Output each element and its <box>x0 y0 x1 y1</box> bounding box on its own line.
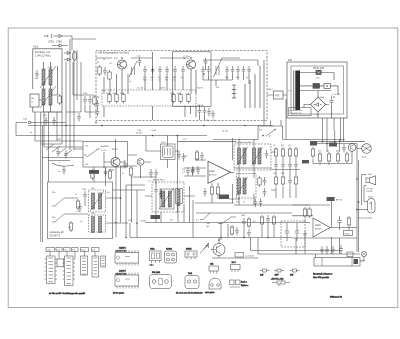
svg-text:47k: 47k <box>104 173 107 175</box>
label box Netztrafo <box>289 108 312 116</box>
wire c20 <box>200 105 205 120</box>
switch arrow S5 <box>55 198 64 206</box>
bus main 2 <box>16 135 207 137</box>
trimmer arrow 2 <box>40 86 56 108</box>
wire link verticals <box>66 50 81 112</box>
resistor R93 <box>272 215 275 226</box>
capacitor C93 <box>266 215 270 224</box>
capacitor C19a <box>247 66 251 75</box>
pad pair D3 <box>290 269 300 272</box>
svg-text:Nn oben und die Bestückseite: Nn oben und die Bestückseite <box>176 292 203 295</box>
coil U1b <box>99 193 102 209</box>
svg-text:C28: C28 <box>57 139 60 141</box>
capacitor C28a <box>44 117 48 126</box>
capacitor C22b <box>207 108 211 117</box>
capacitor C90 <box>235 227 239 236</box>
coil L6 <box>42 89 45 105</box>
pad pair D1 <box>260 269 270 272</box>
resistor R5a <box>122 93 125 104</box>
coil F3a <box>238 178 241 194</box>
capacitor C4b <box>83 96 87 105</box>
coil F1b <box>243 148 246 164</box>
capacitor C12a <box>201 66 205 75</box>
antenna jack 2 <box>52 44 63 47</box>
IC footprint DIP2 <box>65 256 74 286</box>
capacitor C18a <box>242 66 246 75</box>
resistor R65 <box>294 147 297 158</box>
rail top <box>310 142 365 144</box>
rail to bridge <box>300 91 331 98</box>
resistor R2 <box>58 94 61 105</box>
svg-text:Nnn IFB gezahlt: Nnn IFB gezahlt <box>313 276 329 279</box>
transistor T3 <box>111 157 120 166</box>
capacitor C21b <box>203 107 207 116</box>
svg-text:Laufwerke gilt: Laufwerke gilt <box>50 231 65 234</box>
labels <box>273 145 292 175</box>
IC footprint A225 <box>115 253 139 264</box>
svg-text:47n: 47n <box>236 202 239 204</box>
svg-text:120: 120 <box>206 120 209 122</box>
junction dots rails <box>322 141 358 180</box>
capacitor C11a <box>96 100 100 109</box>
svg-text:C50: C50 <box>57 249 60 251</box>
capacitor C50 <box>200 152 204 161</box>
wire u2 <box>292 197 338 254</box>
resistor R32 <box>108 169 111 180</box>
svg-text:C28: C28 <box>43 115 46 117</box>
resistor R30 <box>91 169 94 180</box>
transformer dashed box 1 <box>89 190 106 212</box>
svg-text:C55: C55 <box>92 249 95 251</box>
svg-text:Emitter e: Emitter e <box>241 284 248 287</box>
label box BF245 <box>310 141 317 146</box>
bus under cols <box>195 199 310 213</box>
svg-text:7 Tr: 7 Tr <box>288 90 292 93</box>
IC footprint DIP4 <box>92 256 99 277</box>
svg-text:10n: 10n <box>236 77 239 79</box>
labels <box>318 150 340 152</box>
svg-text:52: 52 <box>243 202 245 204</box>
svg-text:AM Eingangsteil mit Ws1: AM Eingangsteil mit Ws1 <box>98 51 130 55</box>
svg-text:C6B: C6B <box>241 215 246 217</box>
label box M7B4 <box>219 195 229 200</box>
wire zf drops <box>156 205 184 223</box>
capacitor C4a <box>143 66 147 75</box>
wire bundle to AF <box>113 166 146 238</box>
label box row <box>46 248 55 252</box>
resistor R58 <box>258 176 261 187</box>
svg-text:L 04-L12 Ws2: L 04-L12 Ws2 <box>35 55 51 58</box>
capacitor C56 <box>263 188 267 197</box>
svg-text:7a2: 7a2 <box>85 146 88 148</box>
coil L5 <box>49 69 52 85</box>
transformer dashed box 2 <box>89 215 106 232</box>
capacitor C91 <box>242 218 246 227</box>
resistor R82 <box>327 152 330 163</box>
capacitor C33 <box>159 190 163 199</box>
ZF filter dashed box <box>152 182 184 212</box>
svg-text:+RG VOL +RG: +RG VOL +RG <box>271 279 284 281</box>
capacitor C43 <box>191 167 195 176</box>
input resistors U2 <box>303 207 306 218</box>
footprint square <box>57 259 64 267</box>
svg-text:Basis e: Basis e <box>241 282 247 284</box>
wire zf B <box>239 170 254 205</box>
resistor R60 <box>274 147 277 158</box>
value labels row <box>97 56 203 99</box>
svg-text:C2b: C2b <box>210 264 213 266</box>
coil U2a <box>92 217 95 233</box>
wire to box <box>315 254 364 261</box>
wire right net <box>203 58 258 86</box>
switch arrow S3 <box>87 150 98 158</box>
svg-text:Bedienungsplatte: Bedienungsplatte <box>358 217 373 220</box>
svg-text:Ersatzteil-l-Nummer: Ersatzteil-l-Nummer <box>313 273 333 276</box>
capacitor C31 <box>104 168 108 177</box>
capacitor C20b <box>198 107 202 116</box>
bus 1 <box>145 222 310 224</box>
dashed box output caps <box>281 221 305 247</box>
svg-text:S2b: S2b <box>52 217 55 219</box>
capacitor C57 <box>263 177 267 186</box>
capacitor C38 <box>154 169 158 178</box>
svg-text:VD30–236: VD30–236 <box>313 68 325 70</box>
capacitor C52 <box>191 166 195 175</box>
electrolytic C4g <box>339 245 343 254</box>
capacitor C65 <box>254 199 258 208</box>
svg-text:SF215: SF215 <box>186 249 192 251</box>
junction dots buses <box>65 122 264 137</box>
svg-text:1n: 1n <box>181 77 183 79</box>
long scale box <box>314 258 360 267</box>
svg-text:C,4: C,4 <box>182 172 185 174</box>
switch cluster S1 <box>46 144 72 156</box>
svg-text:Ferritant. mit: Ferritant. mit <box>35 50 50 54</box>
ZF stage solid box <box>173 52 211 107</box>
svg-text:U7B1 U7B2: U7B1 U7B2 <box>48 41 63 44</box>
scatter labels <box>30 130 228 222</box>
dark label box BF <box>327 197 335 201</box>
ferrite antenna box L1 <box>33 49 62 112</box>
link to AM box FSK <box>274 91 284 99</box>
wire vdr <box>300 86 338 95</box>
resistor R51 <box>210 185 213 196</box>
svg-text:A225 D: A225 D <box>119 246 126 249</box>
resistor R50 <box>195 150 198 161</box>
svg-text:Nr der guten: Nr der guten <box>113 292 124 295</box>
svg-text:47n: 47n <box>170 220 173 222</box>
trimmer arrow <box>159 188 174 209</box>
svg-text:1k: 1k <box>327 150 329 152</box>
svg-text:2S C: 2S C <box>232 262 237 264</box>
svg-text:C20 47n: C20 47n <box>197 105 204 107</box>
rail bottom <box>313 159 352 166</box>
transformer core Tr1 <box>295 71 300 111</box>
svg-text:C4 1n: C4 1n <box>101 150 106 152</box>
svg-text:1k: 1k <box>185 93 187 95</box>
svg-text:7b41: 7b41 <box>188 273 192 275</box>
coil L7 <box>49 89 52 105</box>
svg-text:C2B: C2B <box>82 189 87 191</box>
svg-text:Ant/FM2: Ant/FM2 <box>101 145 109 148</box>
wire antenna to bus <box>16 123 66 136</box>
capacitor C3B <box>78 203 82 212</box>
dark tick in scale box <box>354 259 359 264</box>
svg-text:1k: 1k <box>273 145 275 147</box>
wire battery <box>357 209 368 211</box>
capacitor C12b <box>204 58 208 67</box>
label texts <box>47 249 95 251</box>
transistor T8 <box>348 144 356 152</box>
svg-text:7a01: 7a01 <box>33 47 39 49</box>
svg-text:L0b: L0b <box>31 98 34 100</box>
capacitor C40 <box>177 151 181 160</box>
trimmer arrow <box>237 147 248 166</box>
resistor R3a <box>108 93 111 104</box>
resistor R63 <box>274 175 277 186</box>
vertical feeds <box>322 118 358 252</box>
resistor R91 <box>247 217 250 228</box>
capacitor C28 <box>56 148 60 157</box>
svg-text:SC306: SC306 <box>166 249 172 251</box>
coil F2b <box>258 148 261 164</box>
capacitor C1g <box>320 246 324 255</box>
resistor R1a <box>98 65 101 76</box>
svg-text:Buf: Buf <box>259 130 262 132</box>
coil U1a <box>92 193 95 209</box>
connector Bu1 <box>163 146 174 158</box>
svg-text:7b 120: 7b 120 <box>222 131 228 133</box>
ZF dashed box A <box>234 144 271 170</box>
resistor R4b <box>93 95 96 106</box>
electrolytic C96 <box>295 223 299 241</box>
trimmer arrow <box>90 191 104 211</box>
transistor T4 <box>137 159 144 166</box>
resistor R95 <box>347 216 350 227</box>
resistor R4a <box>115 93 118 104</box>
notch box <box>258 126 283 140</box>
wire laufwerk <box>67 198 128 223</box>
wire S2 out <box>74 149 106 186</box>
battery B1 <box>368 199 376 214</box>
svg-text:LP 5W: LP 5W <box>367 189 373 191</box>
wire vertical drops <box>104 52 196 94</box>
wire box bottom <box>39 100 62 112</box>
coupling Ue1 <box>73 52 77 61</box>
square pads Q7 <box>230 280 235 285</box>
antenna jack 1 <box>52 34 63 38</box>
wire amp out <box>212 138 234 203</box>
resistor R8a <box>187 93 190 104</box>
ZF dashed box B <box>237 174 257 199</box>
switch arrow S9 <box>200 213 211 220</box>
amp triangle U2 <box>313 218 330 237</box>
wire right <box>292 227 357 254</box>
svg-text:2 SU4T1 S2: 2 SU4T1 S2 <box>290 113 303 115</box>
coil L10 <box>232 85 236 98</box>
svg-text:unten platte: unten platte <box>205 291 214 294</box>
svg-text:1n: 1n <box>122 173 124 175</box>
connector box <box>161 144 176 160</box>
rail into filters <box>178 99 286 141</box>
fuse Si1 <box>316 70 321 74</box>
wire cols <box>271 152 300 198</box>
capacitor C92 <box>247 229 251 238</box>
capacitor C37 <box>149 169 153 178</box>
svg-text:C501: C501 <box>47 249 51 251</box>
resistor R83 <box>336 152 339 163</box>
wire t9 <box>219 223 244 259</box>
wire drops <box>262 224 274 238</box>
capacitor C29 <box>64 150 68 159</box>
svg-text:10,7 MHz Bandfilter: 10,7 MHz Bandfilter <box>235 141 253 144</box>
capacitor C2 <box>35 70 39 79</box>
svg-text:8k2: 8k2 <box>113 93 116 95</box>
capacitor C41 <box>182 153 186 162</box>
svg-text:0,1: 0,1 <box>80 221 83 223</box>
svg-text:U7B: U7B <box>77 211 82 213</box>
label Lautstaerke <box>235 253 244 258</box>
dome footprint Q6 <box>209 278 221 289</box>
junction dots battery <box>356 201 359 210</box>
bus step right <box>213 118 345 140</box>
wire coil taps <box>44 62 51 112</box>
capacitor C15a <box>225 66 229 75</box>
potentiometer RP1 <box>277 279 285 287</box>
capacitor C1a <box>103 67 107 76</box>
junction dots <box>121 57 204 74</box>
power supply box <box>287 62 347 118</box>
wire bridge out <box>304 105 332 119</box>
svg-text:M7B4: M7B4 <box>109 170 115 172</box>
resistor R64 <box>281 175 284 186</box>
svg-text:2k2: 2k2 <box>120 93 123 95</box>
capacitor C51 <box>196 166 200 175</box>
svg-text:7YG: 7YG <box>315 115 320 117</box>
svg-text:7a 03: 7a 03 <box>48 67 53 69</box>
capacitor C53 <box>203 188 207 197</box>
capacitor C23b <box>211 110 215 119</box>
capacitor C60 <box>274 161 278 170</box>
IC footprint DIP3 <box>81 256 88 275</box>
IC footprint A210 <box>115 275 139 286</box>
svg-text:SF245: SF245 <box>112 149 118 151</box>
wire mixer <box>104 139 125 168</box>
dashed sub-box resistors <box>102 90 196 106</box>
junction dots <box>115 197 138 238</box>
curved wire <box>52 163 74 166</box>
capacitor C28b <box>52 117 56 126</box>
svg-text:1a03: 1a03 <box>83 93 87 95</box>
capacitor C36 <box>123 160 127 169</box>
svg-text:1a·4: 1a·4 <box>183 139 187 141</box>
transistor T2 <box>186 60 195 69</box>
resistor R31 <box>129 166 132 177</box>
svg-text:AM ZF-Filter: AM ZF-Filter <box>153 179 165 182</box>
coil F1a <box>238 148 241 164</box>
svg-text:Stillstand 68: Stillstand 68 <box>330 296 343 299</box>
resistor R52 <box>216 185 219 196</box>
wire from jack to AM box <box>63 36 96 51</box>
resistor R41 <box>69 221 72 232</box>
svg-text:C54a: C54a <box>81 249 85 251</box>
IC footprint DIP1 <box>47 256 56 284</box>
bus main 1 <box>28 120 273 126</box>
svg-text:e b c: e b c <box>150 265 154 267</box>
svg-text:1k: 1k <box>213 120 215 122</box>
resistor R80 <box>311 147 314 158</box>
capacitor C6b <box>77 113 81 122</box>
wire jack <box>356 148 362 149</box>
capacitor C70 <box>342 144 346 153</box>
coil F2a <box>253 148 256 164</box>
capacitor C3g <box>331 246 335 255</box>
bus 2 <box>130 223 292 238</box>
svg-text:A210K: A210K <box>315 227 322 230</box>
svg-text:2SA: 2SA <box>320 96 325 99</box>
svg-text:1n: 1n <box>75 194 77 196</box>
svg-text:0,1: 0,1 <box>148 181 151 183</box>
capacitor C97 <box>303 230 307 239</box>
svg-text:DD-8077S: DD-8077S <box>50 235 61 237</box>
svg-text:BF 521: BF 521 <box>336 200 343 202</box>
wire speaker <box>362 175 368 206</box>
svg-text:FSk 1309: FSk 1309 <box>152 272 160 274</box>
capacitor C62 <box>288 161 292 170</box>
small box Rg <box>347 252 353 257</box>
svg-text:SAY*: SAY* <box>275 274 279 277</box>
svg-text:Lautstärke: Lautstärke <box>245 255 255 258</box>
cap labels <box>225 77 249 79</box>
speaker LS1 <box>366 178 370 183</box>
resistor R61 <box>281 147 284 158</box>
resistor R7a <box>179 93 182 104</box>
svg-text:A273 D: A273 D <box>209 173 217 176</box>
resistor R6a <box>172 93 175 104</box>
svg-text:1k: 1k <box>103 59 105 61</box>
wire amp in <box>184 160 206 176</box>
transistor T9 <box>213 244 225 256</box>
coil filter L12 <box>160 189 174 209</box>
svg-text:Netztrafo mit: Netztrafo mit <box>290 109 303 112</box>
svg-text:C88: C88 <box>91 213 94 215</box>
wire shield <box>190 186 194 238</box>
capacitor C2g <box>325 246 329 255</box>
label box AM/FM <box>89 170 99 174</box>
capacitor C66 <box>259 199 263 208</box>
capacitor C7a <box>165 66 169 75</box>
coil F3b <box>243 178 246 194</box>
inner box <box>291 66 344 114</box>
wire connector <box>168 136 180 215</box>
wire c12b <box>205 67 207 71</box>
wire zf A <box>234 139 271 170</box>
capacitor C55 <box>265 150 269 159</box>
AM box outline <box>96 51 267 121</box>
svg-text:1a0: 1a0 <box>85 164 88 166</box>
phone jack Bu3 <box>361 251 366 256</box>
transistor T1 <box>117 60 126 69</box>
svg-text:U7b: U7b <box>128 220 131 222</box>
svg-text:(MTr): (MTr) <box>268 88 273 91</box>
bridge rectifier Gl1 <box>311 97 326 112</box>
wire right verticals down <box>245 60 264 120</box>
capacitor C32 <box>154 186 158 195</box>
capacitor C17a <box>236 66 240 75</box>
resistor R81 <box>318 152 321 163</box>
dark box R99 <box>302 160 309 163</box>
label box BF2 <box>329 143 337 147</box>
